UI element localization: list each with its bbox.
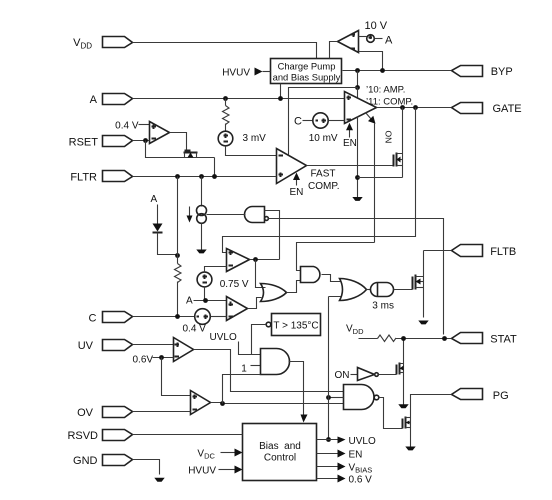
svg-text:GND: GND [73, 455, 98, 467]
svg-text:BYP: BYP [491, 66, 513, 78]
svg-text:EN: EN [343, 138, 357, 149]
svg-text:A: A [90, 94, 98, 106]
svg-text:3 mV: 3 mV [243, 133, 267, 144]
svg-text:FAST: FAST [311, 169, 336, 180]
svg-text:and Bias Supply: and Bias Supply [273, 72, 341, 83]
svg-text:RSVD: RSVD [67, 430, 98, 442]
svg-text:3 ms: 3 ms [372, 301, 394, 312]
svg-text:UVLO: UVLO [210, 332, 237, 343]
svg-text:ON: ON [384, 131, 394, 144]
svg-text:GATE: GATE [493, 103, 522, 115]
svg-text:T > 135°C: T > 135°C [273, 320, 318, 331]
svg-text:COMP.: COMP. [308, 181, 340, 192]
svg-text:0.75 V: 0.75 V [220, 279, 249, 290]
svg-text:Bias and: Bias and [259, 441, 301, 452]
svg-text:1: 1 [241, 363, 247, 374]
svg-text:10 mV: 10 mV [309, 133, 338, 144]
svg-text:RSET: RSET [69, 137, 99, 149]
svg-text:C: C [294, 116, 302, 128]
svg-text:10 V: 10 V [365, 20, 388, 32]
svg-text:UVLO: UVLO [349, 436, 376, 447]
svg-text:Control: Control [264, 453, 296, 464]
svg-text:0.6 V: 0.6 V [349, 474, 373, 485]
svg-text:STAT: STAT [490, 334, 517, 346]
svg-text:0.6V: 0.6V [133, 354, 154, 365]
svg-text:HVUV: HVUV [222, 68, 250, 79]
svg-text:C: C [89, 312, 97, 324]
svg-text:EN: EN [290, 187, 304, 198]
svg-text:PG: PG [493, 390, 509, 402]
svg-text:A: A [151, 194, 158, 205]
svg-text:HVUV: HVUV [188, 465, 216, 476]
svg-text:’11: COMP.: ’11: COMP. [366, 97, 413, 108]
svg-text:A: A [186, 296, 193, 307]
svg-text:UV: UV [78, 340, 94, 352]
svg-text:FLTB: FLTB [490, 246, 516, 258]
svg-text:0.4 V: 0.4 V [183, 324, 207, 335]
svg-text:Charge Pump: Charge Pump [278, 61, 336, 72]
svg-text:OV: OV [77, 407, 94, 419]
svg-text:EN: EN [349, 450, 363, 461]
svg-text:FLTR: FLTR [70, 172, 97, 184]
svg-text:0.4 V: 0.4 V [115, 121, 139, 132]
svg-text:ON: ON [335, 370, 350, 381]
svg-text:’10: AMP.: ’10: AMP. [366, 85, 405, 96]
svg-text:A: A [385, 35, 393, 47]
